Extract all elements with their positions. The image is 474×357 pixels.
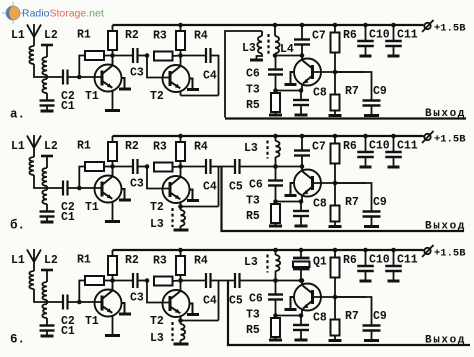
wire node to T2 base <box>147 281 170 303</box>
node T3 collector <box>300 164 305 169</box>
svg-text:а.: а. <box>10 108 25 122</box>
node L3 bottom (v) <box>273 278 278 283</box>
power terminal +1.5V (b) <box>424 134 430 140</box>
resistor R3 feedback (v) <box>154 277 173 286</box>
capacitor C1 (a) <box>40 99 55 101</box>
T3 base wire to R6/R7 node <box>314 71 367 73</box>
svg-text:C4: C4 <box>203 181 217 194</box>
node L4/C6 <box>273 53 278 58</box>
svg-text:Выход: Выход <box>425 108 466 120</box>
wire C4 right branch down <box>211 56 219 96</box>
node C11 top <box>391 248 396 253</box>
resistor R1 feedback (b) <box>79 167 85 189</box>
node C7 top <box>300 134 305 139</box>
wire L2 to C1 <box>46 204 48 211</box>
svg-text:C9: C9 <box>373 310 387 323</box>
wire C2 to T1 base <box>68 187 102 189</box>
svg-text:L1: L1 <box>11 140 25 153</box>
node C11 top <box>391 23 396 28</box>
capacitor C8 (a) <box>300 91 302 101</box>
wire collector1 to C3 <box>113 55 134 57</box>
svg-text:R7: R7 <box>345 310 359 323</box>
inductor L2 lower winding (b) <box>42 190 47 204</box>
wire C6 to R5 node <box>275 186 277 202</box>
resistor R3 feedback (a) <box>154 52 173 61</box>
transistor T3 (b) <box>294 170 321 197</box>
transistor T2 (v) <box>163 290 190 317</box>
svg-text:C7: C7 <box>312 30 326 43</box>
inductor L2 lower winding (a) <box>42 79 47 93</box>
wire C5 to T3 node (v) <box>240 280 303 282</box>
inductor L2 (v) top bar <box>41 269 53 272</box>
wire L2 tap <box>46 186 48 190</box>
svg-text:C4: C4 <box>203 70 217 83</box>
node L3 top (v) <box>273 248 278 253</box>
T3 emitter lead down <box>301 84 303 91</box>
svg-text:L4: L4 <box>280 43 294 56</box>
resistor R6 (v) <box>334 250 336 258</box>
wire collector2 to C4 <box>181 55 207 57</box>
svg-text:C11: C11 <box>397 29 418 42</box>
T1 emitter lead to ground <box>112 91 114 110</box>
wire L1 bottom to base wire <box>34 289 62 302</box>
circuit v: antenna W1 <box>33 249 35 271</box>
node L3 bottom (b) <box>273 164 278 169</box>
ground below C10 (a) <box>360 55 372 58</box>
wire T2 emitter down <box>180 92 182 96</box>
node R4 top <box>178 134 183 139</box>
T3 emitter lead down <box>301 195 303 202</box>
wire collector1 to C3 <box>113 166 134 168</box>
svg-text:R3: R3 <box>153 255 167 268</box>
T3 base wire to R6/R7 node <box>314 296 367 298</box>
wire R1 to collector node <box>104 166 113 168</box>
svg-text:б.: б. <box>10 218 25 233</box>
svg-text:T3: T3 <box>246 195 260 208</box>
circuit a: antenna W1 <box>33 24 35 46</box>
svg-text:R5: R5 <box>246 324 260 337</box>
svg-text:C9: C9 <box>373 196 387 209</box>
wire collector2 to C4 <box>181 166 207 168</box>
svg-text:C10: C10 <box>369 29 390 42</box>
inductor L1 (a) <box>29 46 34 64</box>
node R4 top <box>178 23 183 28</box>
svg-text:L2: L2 <box>44 29 58 42</box>
svg-text:R4: R4 <box>194 141 208 154</box>
transformer L3 primary winding (a) <box>261 31 263 36</box>
resistor R5 (b) <box>271 204 280 223</box>
svg-text:R7: R7 <box>345 196 359 209</box>
T3 emitter lead down <box>301 309 303 316</box>
wire emitter to C4 branch <box>181 95 219 97</box>
inductor L3 choke (b) <box>275 136 277 141</box>
node C10 top <box>363 248 368 253</box>
svg-text:Выход: Выход <box>425 335 466 347</box>
resistor R6 (b) <box>334 136 336 144</box>
T3 collector lead <box>301 281 303 286</box>
T1 collector lead <box>112 60 114 66</box>
inductor L3 choke (v) <box>275 250 277 255</box>
svg-text:R1: R1 <box>77 29 91 42</box>
svg-text:R6: R6 <box>343 254 357 267</box>
capacitor C1 (v) <box>40 324 55 326</box>
node R6 top <box>333 248 338 253</box>
svg-text:C3: C3 <box>130 67 144 80</box>
svg-text:C6: C6 <box>249 293 263 306</box>
svg-text:+1.5В: +1.5В <box>434 23 466 35</box>
T3 collector lead <box>301 56 303 61</box>
wire R3 right lead <box>173 55 181 58</box>
wire C5 to T3 node (b) <box>240 166 303 168</box>
ground hook T3 (b) <box>291 183 295 195</box>
wire node to T3 collector node <box>275 55 302 57</box>
svg-text:T1: T1 <box>85 315 99 328</box>
capacitor C10 (v) <box>365 250 367 266</box>
svg-text:R4: R4 <box>194 30 208 43</box>
svg-text:R2: R2 <box>125 140 139 153</box>
wire T2 emitter down <box>180 203 182 207</box>
wire L1 bottom to base wire <box>34 64 62 77</box>
resistor R6 (a) <box>334 25 336 33</box>
wire R2 to T1 collector <box>112 275 114 291</box>
capacitor C9 (a) <box>335 72 372 101</box>
svg-text:R1: R1 <box>77 140 91 153</box>
node C10 top <box>363 23 368 28</box>
emitter ground hook T2 (b) <box>190 190 193 200</box>
svg-text:L2: L2 <box>44 254 58 267</box>
inductor L1 (v) <box>29 271 34 289</box>
node L4 top <box>273 23 278 28</box>
ground below T1 (v) <box>105 334 120 337</box>
svg-text:L1: L1 <box>11 29 25 42</box>
capacitor C2 (v) <box>62 295 64 310</box>
ground below C10 (v) <box>360 280 372 283</box>
node C10 top <box>363 134 368 139</box>
svg-text:T1: T1 <box>85 201 99 214</box>
wire T2 emitter down <box>180 317 182 321</box>
output line (v) <box>228 281 470 346</box>
ground below T1 (b) <box>105 220 120 223</box>
resistor R7 (a) <box>334 72 336 95</box>
inductor L3 emitter coil (b) <box>178 204 183 209</box>
capacitor C3 (b) <box>132 159 134 174</box>
svg-text:R2: R2 <box>125 29 139 42</box>
wire L3 to ground <box>257 54 263 60</box>
svg-text:C4: C4 <box>203 295 217 308</box>
emitter ground hook T1 (b) <box>122 189 125 199</box>
capacitor C11 (b) <box>393 136 395 152</box>
ground below R5 (v) <box>269 339 282 342</box>
wire R2 to T1 collector <box>112 161 114 177</box>
resistor R7 (v) <box>334 297 336 320</box>
svg-text:6.: 6. <box>10 333 25 347</box>
resistor R1 feedback (v) <box>79 281 85 303</box>
svg-text:C10: C10 <box>369 254 390 267</box>
svg-text:C11: C11 <box>397 140 418 153</box>
wire node to T2 base <box>147 56 170 78</box>
logo icon globe <box>2 2 24 24</box>
capacitor C11 (a) <box>393 25 395 41</box>
node T1 base <box>77 75 82 80</box>
wire L1 bottom to base wire <box>34 175 62 188</box>
inductor L2 upper winding (v) <box>42 282 47 300</box>
ground below emitter coil (v) <box>174 343 189 346</box>
wire C4 right branch down <box>218 281 220 321</box>
node C6/R5 <box>273 199 278 204</box>
capacitor C8 (v) <box>300 316 302 326</box>
svg-text:R4: R4 <box>194 255 208 268</box>
transistor T1 (a) <box>95 65 122 92</box>
emitter ground hook T2 (a) <box>190 79 193 89</box>
svg-text:C1: C1 <box>61 325 75 338</box>
choke core (b) <box>266 141 268 159</box>
T1 collector lead <box>112 285 114 291</box>
capacitor C6 (b) <box>275 167 277 181</box>
wire R3 right lead <box>173 280 181 283</box>
capacitor C1 (b) <box>40 210 55 212</box>
svg-text:L2: L2 <box>44 140 58 153</box>
node T1 collector <box>110 278 115 283</box>
circuit b: antenna W1 <box>33 135 35 157</box>
ground below emitter coil (b) <box>174 229 189 232</box>
svg-text:C8: C8 <box>313 198 327 211</box>
wire emitter to C4 branch <box>181 320 219 322</box>
resistor R4 load (v) <box>180 250 182 256</box>
resistor R5 (a) <box>271 93 280 112</box>
node T2 collector <box>178 164 183 169</box>
inductor L2 (a) top bar <box>41 44 53 47</box>
ground below C10 (b) <box>360 166 372 169</box>
capacitor C10 (b) <box>365 136 367 152</box>
capacitor C9 (v) <box>335 297 372 326</box>
svg-text:R1: R1 <box>77 254 91 267</box>
ground below R5 (b) <box>269 225 282 228</box>
capacitor C8 (b) <box>300 202 302 212</box>
ground below R5 (a) <box>269 114 282 117</box>
node C6 top (v) <box>273 278 278 283</box>
svg-text:R2: R2 <box>125 254 139 267</box>
node C6/R5 <box>273 313 278 318</box>
node R6 top <box>333 23 338 28</box>
svg-text:L3: L3 <box>244 142 258 155</box>
svg-text:L3: L3 <box>244 256 258 269</box>
wire C6 to R5 node <box>275 75 277 91</box>
svg-text:C6: C6 <box>246 68 260 81</box>
svg-text:C10: C10 <box>369 140 390 153</box>
capacitor C3 (a) <box>132 48 134 63</box>
transistor T3 (v) <box>294 284 321 311</box>
inductor L2 upper winding (b) <box>42 168 47 186</box>
node Q1 top <box>299 248 304 253</box>
svg-text:C1: C1 <box>61 100 75 113</box>
node base/R6/R7 <box>333 295 338 300</box>
ground below C9 (v) <box>364 339 379 342</box>
wire C4 to C5 (b) <box>211 166 236 168</box>
node C8 top <box>299 313 304 318</box>
node R4 top <box>178 248 183 253</box>
capacitor C10 (a) <box>365 25 367 41</box>
wire C6 to R5 node <box>275 300 277 316</box>
wire C4 to C5 (v) <box>211 280 236 282</box>
capacitor C6 (v) <box>275 281 277 295</box>
transformer core (a) <box>267 34 269 54</box>
svg-text:T3: T3 <box>246 84 260 97</box>
node C8 top <box>299 88 304 93</box>
svg-text:RadioStorage.net: RadioStorage.net <box>22 8 104 20</box>
resistor R4 load (b) <box>180 136 182 142</box>
inductor L3 emitter coil (v) <box>178 318 183 323</box>
capacitor C4 (a) <box>205 48 207 63</box>
capacitor C5 (b) <box>234 159 236 174</box>
svg-text:L1: L1 <box>11 254 25 267</box>
node C3/R3/T2-base <box>145 164 150 169</box>
ground below C8 (b) <box>295 225 308 228</box>
ground below C1 (b) <box>41 221 54 224</box>
node base/R6/R7 <box>333 70 338 75</box>
svg-text:C1: C1 <box>61 211 75 224</box>
capacitor C4 (b) <box>205 159 207 174</box>
transistor T3 (a) <box>294 59 321 86</box>
wire C1 to ground <box>46 331 48 336</box>
T1 collector lead <box>112 171 114 177</box>
node T1 base <box>77 186 82 191</box>
transistor T1 (b) <box>95 176 122 203</box>
svg-text:R5: R5 <box>246 99 260 112</box>
svg-text:C9: C9 <box>373 85 387 98</box>
output loop wire from rail area down (a) <box>225 31 262 118</box>
transistor T1 (v) <box>95 290 122 317</box>
ground hook T3 (a) <box>291 72 295 84</box>
svg-text:T2: T2 <box>150 90 164 103</box>
resistor R4 load (a) <box>180 25 182 31</box>
supply rail (v) <box>113 249 424 251</box>
svg-text:L3: L3 <box>150 332 164 345</box>
ground below T1 (a) <box>105 109 120 112</box>
svg-text:L3: L3 <box>150 218 164 231</box>
wire L2 tap <box>46 300 48 304</box>
resistor R2 load (v) <box>112 250 114 256</box>
capacitor C2 (b) <box>62 181 64 196</box>
svg-text:C8: C8 <box>313 312 327 325</box>
T3 base wire to R6/R7 node <box>314 182 367 184</box>
wire L4 bottom to node <box>274 54 276 56</box>
node T3 collector <box>300 278 305 283</box>
wire C3 to node <box>138 55 148 57</box>
power terminal +1.5V (a) <box>424 23 430 29</box>
wire C4 right branch down <box>218 167 220 207</box>
emitter coil core (b) <box>171 208 173 227</box>
wire R5 node to C8 node <box>276 315 302 317</box>
node T1 collector <box>110 53 115 58</box>
ground hook T3 (v) <box>291 297 295 309</box>
resistor R2 load (b) <box>112 136 114 142</box>
wire collector2 to C4 <box>181 280 207 282</box>
choke core (v) <box>266 255 268 273</box>
emitter coil core (v) <box>171 322 173 341</box>
wire C2 to T1 base <box>68 301 102 303</box>
transistor T2 (b) <box>163 176 190 203</box>
resistor R3 feedback (b) <box>154 163 173 172</box>
wire R2 to T1 collector <box>112 50 114 66</box>
node T1 base <box>77 300 82 305</box>
capacitor C3 (v) <box>132 273 134 288</box>
svg-text:T1: T1 <box>85 90 99 103</box>
wire R5 node to C8 node <box>276 201 302 203</box>
svg-text:C3: C3 <box>130 178 144 191</box>
T1 emitter lead to ground <box>112 316 114 335</box>
ground below R7 (b) <box>329 225 342 228</box>
ground below C1 (a) <box>41 110 54 113</box>
wire R3 right lead <box>173 166 181 169</box>
wire R5 node to C8 node <box>276 90 302 92</box>
inductor L2 upper winding (a) <box>42 57 47 75</box>
capacitor C9 (b) <box>335 183 372 212</box>
capacitor C7 (a) <box>301 25 303 39</box>
ground below C1 (v) <box>41 335 54 338</box>
capacitor C6 (a) <box>275 56 277 70</box>
ground below C9 (a) <box>364 114 379 117</box>
svg-text:+1.5В: +1.5В <box>434 248 466 260</box>
ground below C11 (a) <box>388 55 400 58</box>
ground below C11 (v) <box>388 280 400 283</box>
wire R4 to T2 collector <box>180 161 182 178</box>
ground below C8 (a) <box>295 114 308 117</box>
svg-text:C3: C3 <box>130 292 144 305</box>
wire collector1 to C3 <box>113 280 134 282</box>
wire C3 to node <box>138 166 148 168</box>
svg-text:C5: C5 <box>229 295 243 308</box>
power terminal +1.5V (v) <box>424 248 430 254</box>
resistor R2 load (a) <box>112 25 114 31</box>
ground below R7 (a) <box>329 114 342 117</box>
node base/R6/R7 <box>333 181 338 186</box>
emitter ground hook T2 (v) <box>190 304 193 314</box>
wire L2 to C1 <box>46 318 48 325</box>
ground below C9 (b) <box>364 225 379 228</box>
node C7 top <box>300 23 305 28</box>
supply rail (a) <box>113 24 424 26</box>
svg-text:C6: C6 <box>249 179 263 192</box>
transistor T2 (a) <box>163 65 190 92</box>
svg-text:+1.5В: +1.5В <box>434 134 466 146</box>
node L3 top (b) <box>273 134 278 139</box>
ground below R7 (v) <box>329 339 342 342</box>
svg-text:Выход: Выход <box>425 221 466 233</box>
node C6/R5 <box>273 88 278 93</box>
quartz crystal Q1 (v) <box>300 250 302 258</box>
node R6 top <box>333 134 338 139</box>
resistor R5 (v) <box>271 318 280 337</box>
node C11 top <box>391 134 396 139</box>
wire R4 to T2 collector <box>180 275 182 292</box>
node T3 collector <box>300 53 305 58</box>
T3 collector lead <box>301 167 303 172</box>
ground below C8 (v) <box>295 339 308 342</box>
capacitor C2 (a) <box>62 70 64 85</box>
emitter ground hook T1 (v) <box>122 303 125 313</box>
svg-text:C5: C5 <box>229 181 243 194</box>
capacitor C11 (v) <box>393 250 395 266</box>
node C3/R3/T2-base <box>145 53 150 58</box>
svg-text:T2: T2 <box>150 315 164 328</box>
wire C2 to T1 base <box>68 76 102 78</box>
resistor R1 feedback (a) <box>79 56 85 78</box>
wire emitter to C4 branch <box>181 206 219 208</box>
wire L2 tap <box>46 75 48 79</box>
node Q1 bottom <box>299 278 304 283</box>
svg-text:C7: C7 <box>312 141 326 154</box>
svg-text:R6: R6 <box>343 140 357 153</box>
